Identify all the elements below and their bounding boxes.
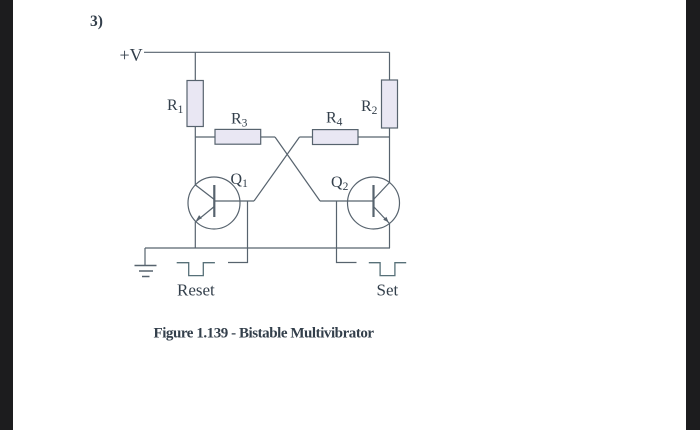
wire Q2 base to Set drop [337,201,357,263]
svg-text:3): 3) [90,13,103,30]
right dark sidebar [686,0,700,430]
wire Q1 emitter to rail [194,222,196,248]
wire cross-couple R4 to Q1 base [254,137,300,201]
svg-text:Q2: Q2 [331,174,349,193]
label R3 [231,111,248,130]
resistor R3 [215,129,261,144]
wire R1 top lead [194,52,196,80]
resistor R4 [313,130,359,145]
transistor Q1 [188,177,254,229]
wire node A to R3 [195,136,215,138]
svg-text:R4: R4 [326,110,343,129]
svg-text:R2: R2 [361,98,378,117]
label Set [377,281,399,300]
wire R2 bottom to Q2 collector [389,128,391,183]
resistor R2 [382,80,398,128]
Reset pulse source [177,263,215,276]
label R4 [326,110,343,129]
wire cross-couple R3 to Q2 base [275,137,320,201]
label Reset [177,281,215,300]
wire +V top rail [144,51,390,53]
svg-text:Q1: Q1 [231,171,249,190]
label R2 [361,98,378,117]
svg-text:Figure 1.139 - Bistable Multiv: Figure 1.139 - Bistable Multivibrator [154,326,375,342]
Set pulse source [369,263,406,276]
wire Q1 base to Reset drop [228,201,248,263]
resistor R1 [187,81,203,127]
wire R3 right stub [261,136,275,138]
svg-text:R3: R3 [231,111,248,130]
svg-text:Reset: Reset [177,281,215,300]
left dark sidebar [0,0,13,430]
label R1 [167,97,184,116]
label Q2 [331,174,349,193]
wire R2 top lead [389,52,391,80]
ground [135,248,157,277]
label +V [120,45,143,65]
wire emitter ground rail [145,247,390,249]
caption Figure 1.139 [154,326,375,342]
label Q1 [231,171,249,190]
wire R4 right stub [358,136,390,138]
svg-text:+V: +V [120,45,143,65]
wire R4 left stub [300,136,313,138]
svg-text:R1: R1 [167,97,184,116]
label 3) [90,13,103,30]
svg-text:Set: Set [377,281,399,300]
wire R1 bottom to Q1 collector [194,127,196,186]
wire Q2 emitter to rail [389,224,391,249]
transistor Q2 [320,177,400,229]
